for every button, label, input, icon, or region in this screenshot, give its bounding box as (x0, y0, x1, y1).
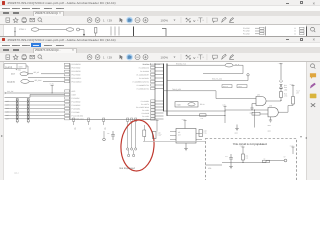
node pin P1.10/WS (65, 110, 81, 113)
node xtal pin 3 (135, 118, 137, 137)
node pin P1.x/SWD1 (141, 99, 164, 102)
node pin P0.1/RXD0 (65, 70, 81, 73)
svg-text:C18: C18 (158, 131, 161, 134)
svg-text:P0.0/AD: P0.0/AD (243, 26, 250, 29)
resistor vertical strip (95, 27, 97, 37)
svg-text:RXD3/U_Tx0: RXD3/U_Tx0 (176, 63, 186, 66)
node pin P1.20/SCK0 (140, 69, 163, 72)
svg-text:P0.2/AD: P0.2/AD (243, 32, 250, 35)
svg-text:1: 1 (103, 55, 105, 59)
resistor R14 capacitor C14 pull pair (5, 109, 65, 114)
svg-text:P0.3/SSEL1: P0.3/SSEL1 (72, 77, 82, 80)
ground above dashed box (235, 124, 239, 134)
node label this circuit is not populated (233, 142, 268, 146)
resistor R19 in ellipse (143, 125, 146, 142)
svg-text:R35 1K: R35 1K (223, 85, 228, 88)
node test point TP1 (167, 73, 249, 80)
resistor jumper oval A (31, 27, 66, 30)
node pin P1.14/SD-DIO (65, 114, 84, 117)
wire dashed box net (222, 160, 284, 163)
node pin P1.9/SSEL (65, 107, 81, 110)
resistor R21 (242, 154, 249, 160)
node test point TP3 (284, 155, 287, 162)
svg-text:R16: R16 (284, 92, 287, 95)
svg-text:A5/5: A5/5 (72, 89, 76, 92)
svg-text:C19: C19 (204, 129, 207, 132)
node xtal pin 1 (127, 118, 129, 141)
svg-text:P1.4/MOSI: P1.4/MOSI (72, 103, 81, 106)
resistor R17 chain 2 (292, 89, 300, 105)
svg-text:1: 1 (103, 18, 105, 22)
node label bottom left (14, 171, 19, 174)
svg-text:P1.24/MCFB-T01: P1.24/MCFB-T01 (137, 83, 150, 86)
svg-text:P1.25/MC1B-T01: P1.25/MC1B-T01 (137, 87, 149, 90)
ground gate U5A input (250, 103, 254, 114)
wire bus vertical 1 (163, 63, 165, 111)
node xtal pin 2 (131, 118, 133, 146)
svg-text:0R: 0R (264, 158, 266, 160)
diode D11 red LED (279, 80, 288, 91)
svg-text:P2.x/SWDT-MOSI: P2.x/SWDT-MOSI (136, 105, 149, 108)
svg-text:GND: GND (268, 124, 272, 127)
resistor R35 box (222, 84, 232, 87)
node dashed box this circuit is not populated (206, 138, 297, 184)
svg-text:1A2-4: 1A2-4 (14, 171, 19, 174)
svg-text:P1.9/SSEL: P1.9/SSEL (72, 107, 81, 110)
resistor jumper oval B (66, 27, 74, 30)
node label 2C6 (208, 167, 211, 170)
svg-text:1G04: 1G04 (238, 85, 242, 88)
svg-text:P1.x/AD1: P1.x/AD1 (142, 114, 149, 117)
svg-text:P1.23/MBED-SPI0-T01: P1.23/MBED-SPI0-T01 (133, 80, 150, 83)
node pin P0.3/SSEL1 (65, 77, 82, 80)
svg-text:P0.6/TXD2: P0.6/TXD2 (72, 66, 81, 69)
node SWD debug box (175, 101, 204, 106)
op-amp U1 microcontroller body (70, 63, 155, 119)
ground gate U5B (268, 116, 273, 132)
node pin row strip 1 (243, 26, 264, 29)
node pin P1.x/TD1 (142, 117, 163, 120)
svg-text:GND: GND (268, 129, 272, 132)
svg-text:SPI_IO: SPI_IO (34, 71, 40, 74)
capacitor C19 0.1uF (199, 129, 207, 136)
svg-text:/ 29: / 29 (107, 18, 112, 22)
svg-text:D11: D11 (284, 84, 287, 87)
node off-page connector left (5, 89, 53, 93)
resistor R16 capacitor C16 pull pair (5, 115, 65, 120)
power +3.3V LED supply (278, 61, 283, 80)
resistor R12 capacitor C12 pull pair (5, 102, 65, 107)
wire pin row P0.2 (28, 76, 65, 78)
resistor R16 1.5K (280, 91, 289, 100)
node pin P1.1/MISO (65, 100, 81, 103)
wire down arrow (83, 29, 85, 35)
wire gray bus to dashed box (143, 140, 206, 142)
power +3.3V rail left (50, 82, 65, 93)
svg-text:TX/U2_LED: TX/U2_LED (172, 87, 182, 90)
node JTAG pin column 3 (103, 118, 107, 130)
node pin P1.22/PCAP1 (139, 76, 163, 79)
svg-text:U5A: U5A (257, 93, 261, 96)
node pin P1.0/SCK (65, 96, 81, 99)
node pin P2.x/SWDT-MOSI (136, 105, 163, 108)
node pin STAT (65, 93, 77, 96)
ground U2 (184, 143, 188, 151)
resistor R15 10K pulldown (200, 113, 207, 119)
node pin P1.23/MBED-SPI0-T01 (133, 80, 164, 83)
node pin A5/5 (65, 89, 76, 92)
op-amp U2 supervisor box (170, 128, 202, 143)
svg-text:P1.14/SD-DIO: P1.14/SD-DIO (72, 114, 84, 117)
node [1,4C2] off-page reference (4, 63, 28, 74)
node pin P1.18/U1 (142, 62, 163, 65)
svg-text:+3.3V: +3.3V (278, 63, 282, 64)
node pin row strip 2 (243, 29, 264, 32)
wire stepped net (5, 94, 65, 97)
svg-text:TP: TP (284, 155, 286, 158)
op-amp U5A gate (256, 93, 282, 105)
node pin P1.19/MCOA0 (139, 66, 164, 69)
power +3.3V net ISP enable (163, 103, 227, 123)
resistor JP2 jumper link SPI_CLK (7, 78, 65, 83)
svg-text:P0.1/AD: P0.1/AD (243, 29, 250, 32)
node JTAG pin column 2 (88, 118, 92, 130)
svg-text:U5B: U5B (269, 104, 272, 107)
svg-text:P1.x/TD1: P1.x/TD1 (142, 117, 149, 120)
node label 17N1 (19, 27, 26, 30)
node pin P1.4/MOSI (65, 103, 81, 106)
node pin P1.x/SDTX (141, 102, 163, 105)
svg-text:22: 22 (294, 26, 296, 29)
node pin P0.4/SSEL0 (65, 80, 82, 83)
svg-text:22: 22 (294, 29, 296, 32)
svg-text:P0.1/RXD0: P0.1/RXD0 (72, 70, 81, 73)
svg-text:P1.21/MCABORT: P1.21/MCABORT (136, 73, 149, 76)
svg-text:Not Populated: Not Populated (120, 167, 136, 170)
svg-text:P1.20/SCK0: P1.20/SCK0 (140, 69, 149, 72)
node test point TP2 (103, 131, 106, 141)
svg-text:P0.5/RXD3: P0.5/RXD3 (72, 63, 81, 66)
resistor R11 capacitor C11 pull pair (5, 98, 65, 103)
svg-text:TMS: TMS (73, 127, 76, 130)
resistor R15 capacitor C15 pull pair (5, 112, 65, 117)
node pin P1.24/MCFB-T01 (137, 83, 164, 86)
svg-text:U2: U2 (178, 131, 180, 134)
svg-text:SDN: SDN (19, 65, 23, 68)
svg-text:P1.x/SWD1: P1.x/SWD1 (141, 99, 149, 102)
svg-text:GND: GND (235, 131, 239, 134)
node pin box right strip 2 (294, 29, 304, 32)
wire bus dark (133, 26, 135, 36)
power +3.3V U2 (154, 118, 187, 132)
node pad circle (77, 28, 85, 31)
op-amp U5B gate (268, 104, 293, 116)
resistor R13 capacitor C13 pull pair (5, 105, 65, 110)
capacitor C20 (107, 131, 115, 140)
wire bus trio (111, 26, 119, 35)
wire gate U5A input A from bus (163, 87, 256, 98)
svg-text:+3.3V: +3.3V (290, 144, 294, 147)
node pin P1.x/SD1 (142, 108, 163, 111)
wire net RXD3/U_Tx0 to ISP box (167, 62, 225, 65)
wire vertical net strip (14, 27, 15, 37)
svg-text:P1.x/SDTX: P1.x/SDTX (141, 102, 150, 105)
capacitor C23 (225, 154, 233, 163)
svg-text:P4.x/SWD: P4.x/SWD (142, 111, 150, 114)
svg-text:+3.3V: +3.3V (154, 118, 158, 121)
wire IC edge strip (265, 26, 267, 35)
svg-text:3V3_SW: 3V3_SW (7, 89, 14, 92)
svg-text:+3.3V: +3.3V (290, 83, 294, 86)
svg-text:P0.4/SSEL0: P0.4/SSEL0 (72, 80, 82, 83)
node pin P1.25/MC1B-T01 (137, 87, 164, 90)
svg-text:TMS: TMS (88, 127, 91, 130)
svg-text:Tx_IT: Tx_IT (296, 89, 300, 92)
power +3.3V chain 2 (290, 83, 295, 97)
svg-text:#[1,4C3]: #[1,4C3] (7, 80, 15, 83)
resistor R2 2.2R jumper oval (203, 62, 243, 73)
svg-text:P1.19/MCOA0: P1.19/MCOA0 (139, 66, 149, 69)
ground dashed box (229, 162, 233, 168)
wire gate U5A input B stub (252, 102, 256, 104)
node pin box right strip 3 (294, 32, 304, 35)
svg-text:P1.0/SCK: P1.0/SCK (72, 96, 81, 99)
node pin row strip 3 (243, 32, 264, 35)
resistor R14 10R on U5B input B (252, 112, 268, 115)
capacitor C21 C22 pads (127, 137, 137, 156)
node pin P0.6/TXD2 (65, 66, 81, 69)
svg-text:P2.10: P2.10 (200, 103, 204, 106)
svg-text:C23: C23 (225, 156, 228, 158)
node pin P1.15/WS-CLK (65, 117, 85, 120)
node pin P1.x/AD1 (142, 114, 163, 117)
svg-text:TMS: TMS (103, 127, 106, 130)
svg-text:This circuit is not populated.: This circuit is not populated. (233, 142, 268, 146)
svg-text:17N1-1: 17N1-1 (19, 27, 26, 30)
power +3.3V dashed box (240, 144, 295, 154)
svg-text:SD0_TA_IO0: SD0_TA_IO0 (212, 77, 222, 80)
svg-text:+3.3V: +3.3V (182, 118, 186, 121)
svg-text:P1.10/WS: P1.10/WS (72, 110, 81, 113)
node pin P4.x/SWD (142, 111, 164, 114)
node pin P1.21/MCABORT (136, 73, 163, 76)
wire bus vertical 2 (166, 63, 168, 115)
svg-text:2C6: 2C6 (208, 167, 211, 170)
svg-text:P1.x/SD1: P1.x/SD1 (142, 108, 149, 111)
resistor R22 (263, 158, 270, 162)
svg-text:10K: 10K (201, 117, 204, 120)
node red annotation ellipse Not Populated (119, 118, 155, 171)
svg-text:100%: 100% (160, 18, 168, 22)
node pin P0.2/TXD0 (65, 73, 81, 76)
node JTAG pin column 1 (73, 118, 77, 130)
svg-text:/ 29: / 29 (107, 55, 112, 59)
svg-text:SPI_CLK: SPI_CLK (35, 78, 43, 81)
svg-text:SWD: SWD (177, 103, 182, 106)
capacitor C18 0.1uF (153, 131, 162, 138)
node label Not Populated (120, 167, 136, 170)
node pin box right strip 1 (294, 26, 304, 29)
svg-text:22: 22 (294, 32, 296, 35)
svg-text:P0.2/TXD0: P0.2/TXD0 (72, 73, 81, 76)
resistor bottom stubs (16, 118, 29, 122)
resistor JP1 jumper link SPI_IO (11, 71, 65, 76)
svg-text:P1.1/MISO: P1.1/MISO (72, 100, 81, 103)
svg-text:2C3: 2C3 (11, 72, 16, 75)
svg-text:P1.22/PCAP1: P1.22/PCAP1 (139, 76, 149, 79)
resistor R36 box (237, 84, 247, 87)
svg-text:+3.3V: +3.3V (222, 103, 226, 106)
wire gate U5B input A (225, 109, 268, 127)
svg-text:R21: R21 (246, 154, 249, 157)
wire into dashed box (206, 164, 223, 166)
wire corner net (162, 28, 166, 36)
svg-text:STAT: STAT (72, 93, 77, 96)
wire IC edge dark strip (306, 26, 308, 36)
svg-text:10u: 10u (107, 132, 110, 135)
node pin P0.5/RXD3 (65, 63, 81, 66)
svg-text:100%: 100% (160, 55, 168, 59)
svg-text:TDO: TDO (18, 68, 22, 71)
